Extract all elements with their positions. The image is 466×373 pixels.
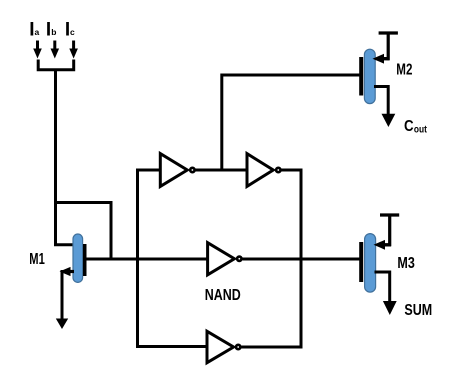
svg-text:M3: M3: [397, 255, 414, 272]
svg-text:out: out: [414, 125, 428, 136]
svg-text:C: C: [404, 118, 414, 135]
svg-text:a: a: [35, 27, 40, 37]
svg-text:b: b: [51, 27, 56, 37]
svg-text:M2: M2: [396, 62, 412, 79]
svg-text:NAND: NAND: [205, 287, 241, 304]
svg-text:M1: M1: [29, 251, 45, 268]
svg-text:SUM: SUM: [404, 302, 432, 319]
svg-text:c: c: [70, 27, 75, 37]
